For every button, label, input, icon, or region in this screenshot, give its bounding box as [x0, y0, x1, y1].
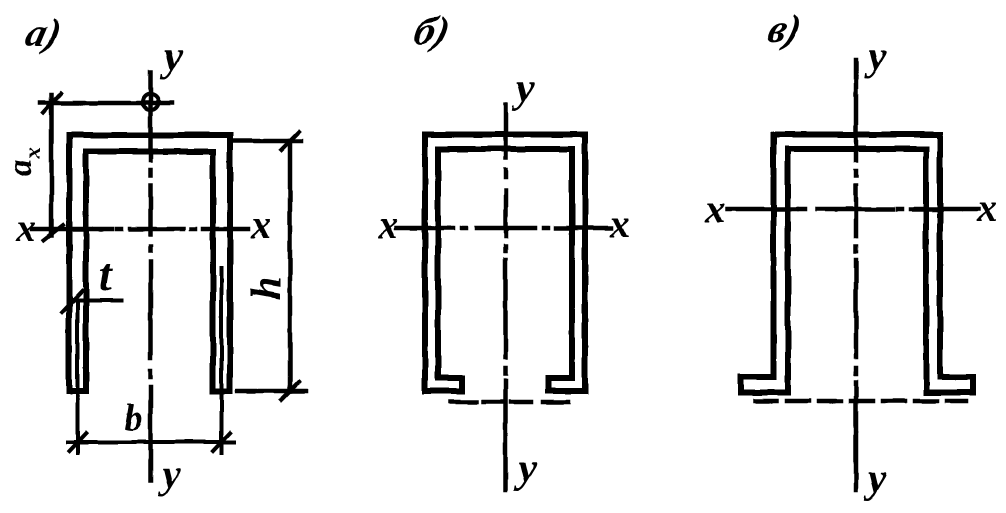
- dimension h tick top: [281, 132, 299, 150]
- dimension a_x tick bottom: [44, 225, 63, 240]
- svg-text:a): a): [22, 11, 66, 55]
- y axis (fig a) centerline: [148, 72, 153, 480]
- x axis (fig a) centerline: [32, 227, 248, 232]
- svg-text:x: x: [976, 185, 997, 230]
- hat profile with outer flanges (fig c): [741, 135, 973, 393]
- svg-text:y: y: [863, 34, 887, 80]
- open-side dashed line (fig b): [450, 400, 568, 405]
- dimension b line: [68, 440, 234, 444]
- svg-text:y: y: [511, 66, 535, 112]
- dimension a_x tick top: [43, 93, 61, 113]
- centroid circle (fig a): [143, 94, 159, 110]
- dimension b tick right: [213, 433, 230, 451]
- svg-text:h: h: [244, 277, 290, 300]
- y axis (fig c) centerline: [854, 60, 859, 490]
- dimension h tick bottom: [281, 382, 299, 400]
- svg-text:x: x: [704, 186, 725, 231]
- svg-text:в): в): [764, 7, 806, 51]
- dimension t leader: [70, 298, 122, 302]
- dimension a_x lines: [40, 95, 172, 235]
- svg-text:ax: ax: [2, 148, 45, 177]
- dimension b extension left: [76, 302, 80, 453]
- svg-text:b: b: [124, 397, 143, 439]
- open-side dashed line (fig c): [755, 399, 966, 404]
- dimension b tick left: [69, 433, 86, 451]
- y axis (fig b) centerline: [503, 105, 508, 490]
- svg-text:y: y: [863, 456, 887, 502]
- channel profile with inner lips (fig b): [425, 135, 585, 392]
- svg-text:t: t: [99, 249, 113, 300]
- dimension h lines: [234, 141, 306, 391]
- svg-text:б): б): [410, 9, 454, 53]
- x axis (fig c) centerline: [727, 207, 978, 212]
- svg-text:x: x: [15, 205, 36, 250]
- dimension b extension right: [220, 268, 224, 453]
- svg-text:x: x: [377, 202, 398, 247]
- dimension t tick: [62, 291, 82, 312]
- channel profile (fig a): [69, 135, 230, 391]
- svg-text:x: x: [609, 201, 630, 246]
- svg-text:y: y: [159, 34, 183, 80]
- svg-text:x: x: [250, 202, 271, 247]
- svg-text:y: y: [513, 446, 537, 492]
- svg-text:y: y: [157, 452, 181, 498]
- x axis (fig b) centerline: [396, 226, 611, 231]
